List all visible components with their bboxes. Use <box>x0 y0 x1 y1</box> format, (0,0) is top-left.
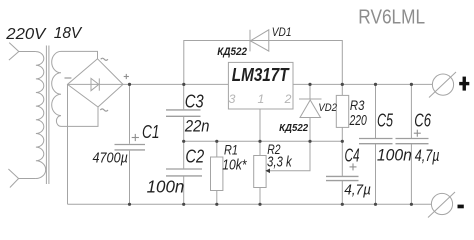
svg-text:RV6LML: RV6LML <box>358 6 425 28</box>
svg-text:R1: R1 <box>224 141 238 157</box>
svg-text:КД522: КД522 <box>217 46 247 58</box>
svg-text:R3: R3 <box>350 97 365 113</box>
svg-text:C6: C6 <box>414 110 431 130</box>
svg-text:4,7µ: 4,7µ <box>415 146 440 165</box>
svg-text:VD2: VD2 <box>318 102 337 114</box>
svg-text:4,7µ: 4,7µ <box>344 183 371 199</box>
svg-text:2: 2 <box>284 92 292 106</box>
svg-text:1: 1 <box>258 92 265 106</box>
svg-text:220: 220 <box>349 113 367 129</box>
svg-text:VD1: VD1 <box>272 25 292 39</box>
svg-text:100n: 100n <box>147 177 185 197</box>
svg-text:10k*: 10k* <box>222 158 247 174</box>
svg-text:C5: C5 <box>377 110 394 130</box>
svg-text:C2: C2 <box>185 146 204 166</box>
svg-text:100n: 100n <box>377 145 412 164</box>
svg-text:22n: 22n <box>184 117 209 135</box>
svg-text:18V: 18V <box>54 25 83 42</box>
svg-text:3,3 k: 3,3 k <box>267 155 292 171</box>
svg-text:C1: C1 <box>142 122 160 142</box>
svg-text:КД522: КД522 <box>279 123 308 134</box>
svg-text:C3: C3 <box>185 92 204 112</box>
svg-text:3: 3 <box>229 92 236 106</box>
svg-text:220V: 220V <box>5 26 46 43</box>
svg-text:4700µ: 4700µ <box>93 150 128 166</box>
svg-text:LM317T: LM317T <box>232 64 290 85</box>
svg-text:C4: C4 <box>345 146 360 166</box>
